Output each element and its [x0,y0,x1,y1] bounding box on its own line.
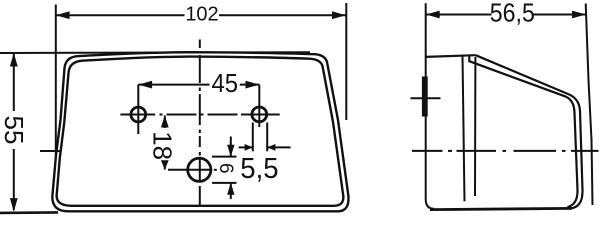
arrow 18 up [161,115,169,127]
extension line 102 right [345,3,347,120]
svg-text:18: 18 [148,131,178,160]
centerline stub left [40,150,61,152]
top edge [426,55,476,57]
big hole horizontal centerline [168,169,212,171]
mounting face line / 56,5 left extension [426,3,434,209]
6 dim arrow lines [230,137,232,157]
svg-text:102: 102 [185,4,218,26]
svg-text:6: 6 [215,163,236,174]
arrow 5,5 left [245,144,253,151]
5,5 extension lines [252,123,254,152]
svg-text:5,5: 5,5 [240,151,278,184]
big hole [188,158,211,181]
bottom edge [430,208,572,209]
5,5 arrow lines [239,146,253,148]
housing/lens split lines [463,56,465,202]
arrow 45 left [138,81,152,89]
arrow 6 down [227,145,234,157]
extension line 102 left [55,5,57,156]
lamp body outer outline (front view) [52,52,348,211]
hole right [252,107,267,122]
inner lens line [469,55,577,207]
arrow 45 right [246,81,260,89]
cross tick [411,97,441,99]
arrow 6 up [227,183,234,195]
extension line bottom (55 dim) [0,211,58,214]
arrow 56,5 right [572,11,586,19]
arrow 18 down [161,160,169,169]
gasket [422,77,428,117]
svg-text:45: 45 [211,69,238,98]
dimension line 55 [13,54,15,111]
arrow 102 left [56,11,70,19]
dimension line 102 [56,14,185,16]
45 dimension line [138,84,209,86]
vertical centerline [199,40,201,49]
arrow 55 down [10,198,18,212]
56,5 right extension line [586,4,593,206]
arrow 102 right [332,11,346,19]
outer slant + right edge [476,55,583,208]
56,5 dimension line [426,14,492,16]
arrow 5,5 right [267,144,275,151]
6 dim tangent ticks [212,156,237,158]
hole left [131,107,146,122]
holes horizontal centerline [120,114,155,116]
horizontal centerline [412,150,443,152]
18 dimension line stubs [164,115,166,128]
svg-text:55: 55 [0,116,29,145]
arrow 55 up [10,53,18,67]
arrow 56,5 left [426,11,440,19]
hole crosshair verticals + 45 leaders [137,85,139,134]
extension line top (55 dim) [0,51,310,54]
svg-text:56,5: 56,5 [490,0,535,28]
lamp body inner outline (front view lens rim) [57,57,344,206]
